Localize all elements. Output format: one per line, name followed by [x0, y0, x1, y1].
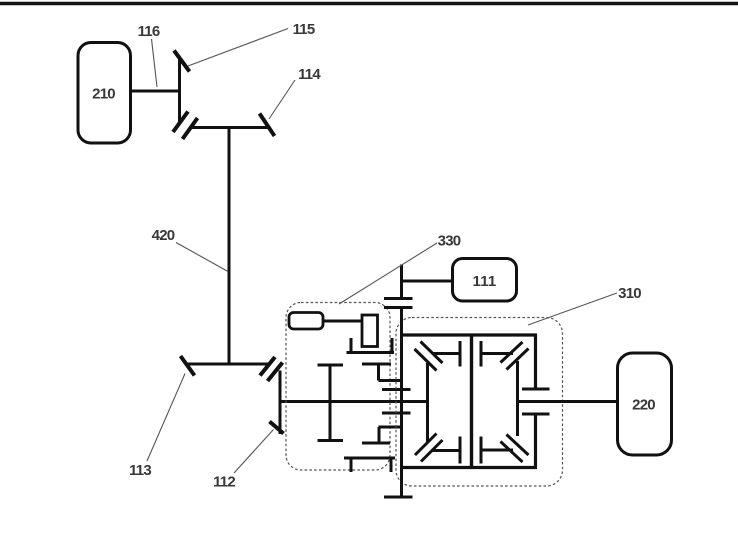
left cell top clutch: bar — [459, 341, 462, 367]
left cell top clutch: stub — [433, 352, 461, 355]
horizontal shaft lower-left — [185, 363, 268, 366]
right cell top clutch: bar — [480, 341, 483, 367]
shaft bottom cap — [384, 496, 413, 499]
dashed enclosure 310 — [396, 318, 563, 487]
short vertical shaft at 112 — [279, 371, 282, 435]
right cell bottom clutch: stub — [481, 449, 513, 452]
right wall bearing bar upper — [522, 388, 550, 391]
gearbox right wall (lower) — [534, 416, 537, 468]
vertical bevel shaft top-left — [178, 59, 181, 123]
dog clutch step (upper) — [362, 363, 391, 366]
shift fork rectangle — [362, 315, 378, 347]
svg-text:112: 112 — [213, 474, 235, 491]
bevel mesh slashes (lower corner) — [260, 357, 275, 376]
top border line — [0, 2, 738, 6]
bevel mesh slashes (upper corner) — [173, 112, 188, 133]
box 210 (motor) — [78, 43, 131, 144]
shaft gear bar upper-left — [382, 388, 411, 391]
shaft gear bar lower-left — [382, 412, 411, 415]
box 220 — [618, 353, 672, 455]
right cell bottom clutch: friction diagonals — [507, 435, 529, 456]
leader 310 — [528, 293, 617, 325]
svg-text:330: 330 — [438, 233, 461, 250]
wire 210 to bevel shaft — [131, 90, 181, 93]
left cell bottom clutch: stub — [433, 449, 461, 452]
left cell bottom clutch: bar — [459, 437, 462, 464]
svg-text:220: 220 — [632, 397, 655, 414]
right cell top clutch: friction diagonals — [501, 342, 523, 363]
upper staple (legs up) — [350, 338, 353, 353]
right hub vertical — [516, 361, 519, 436]
box 111 — [453, 259, 517, 302]
right cell top clutch: stub — [481, 352, 513, 355]
gear tick 114 — [260, 114, 275, 137]
dog clutch step (lower) — [379, 426, 402, 429]
leader 330 — [339, 243, 437, 304]
output shaft to 220 — [518, 400, 618, 403]
svg-text:116: 116 — [138, 23, 160, 40]
svg-text:115: 115 — [293, 21, 315, 38]
input shaft vertical (upper segment) — [400, 265, 403, 301]
gearbox bottom edge — [400, 466, 537, 469]
left cell top clutch: friction diagonals — [421, 342, 443, 364]
svg-text:420: 420 — [152, 227, 175, 244]
leader 112 — [234, 430, 274, 474]
leader 115 — [188, 29, 288, 67]
input shaft vertical (long segment / gearbox left wall) — [400, 306, 403, 497]
left hub vertical — [426, 363, 429, 442]
gear tick 113 — [181, 356, 195, 376]
shaft 420 (vertical) — [228, 128, 231, 365]
lower bracket (legs down) — [344, 457, 395, 460]
gearbox top edge — [400, 333, 537, 336]
mesh bar lower — [384, 306, 413, 309]
gearbox center divider — [470, 335, 473, 468]
gearbox right wall (upper) — [534, 335, 537, 388]
leader 116 — [152, 39, 158, 87]
main horizontal shaft (left section) — [280, 400, 429, 403]
leader 114 — [269, 80, 295, 119]
gear tick 115 — [174, 51, 190, 72]
idler gear I-bar — [329, 365, 332, 441]
actuator small rounded box — [289, 313, 323, 330]
svg-text:113: 113 — [129, 462, 151, 479]
svg-text:310: 310 — [618, 285, 641, 302]
right wall bearing bar lower — [522, 413, 550, 416]
svg-text:210: 210 — [92, 86, 115, 103]
svg-text:114: 114 — [298, 66, 321, 83]
horizontal shaft top — [192, 126, 270, 129]
left cell bottom clutch: friction diagonals — [415, 434, 437, 456]
leader 420 — [176, 243, 228, 272]
mesh bar upper — [384, 297, 413, 300]
wire actuator to fork — [323, 320, 362, 323]
gear tick 112 — [270, 422, 284, 434]
svg-text:111: 111 — [473, 273, 497, 290]
wire to box 111 — [402, 280, 453, 283]
right cell bottom clutch: bar — [480, 437, 483, 464]
dashed enclosure 330 — [286, 303, 390, 471]
leader 113 — [147, 374, 185, 462]
